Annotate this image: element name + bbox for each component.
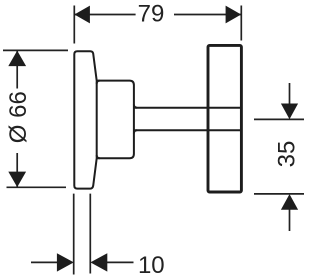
extension line d66 top — [3, 49, 68, 51]
stem top line — [134, 107, 242, 109]
svg-text:Ø 66: Ø 66 — [5, 91, 32, 143]
fillet neck-stem bottom — [134, 130, 137, 133]
extension line 10 left — [73, 194, 75, 275]
extension line 79 right — [240, 6, 242, 41]
dimension line 10 left part — [31, 261, 60, 263]
svg-text:79: 79 — [138, 0, 165, 27]
fillet neck-stem top — [134, 105, 137, 108]
svg-text:35: 35 — [274, 141, 301, 168]
svg-text:10: 10 — [138, 252, 165, 279]
arrow 79 right — [226, 6, 242, 24]
extension line 10 right — [89, 194, 91, 274]
fillet cone-neck top — [97, 81, 100, 84]
arrow d66 up — [8, 51, 26, 67]
reference line 35 top — [254, 118, 304, 120]
extension line 79 left — [73, 6, 75, 44]
dimension line 79 right part — [174, 14, 241, 16]
dimension line d66 upper part — [16, 51, 18, 89]
dimension line 10 right part — [106, 261, 133, 263]
arrow 35 up — [281, 194, 298, 210]
reference line 35 bottom — [254, 193, 304, 195]
dimension line 35 upper part — [289, 83, 291, 110]
fillet cone-neck bottom — [97, 155, 100, 158]
dimension line 35 lower part — [289, 203, 291, 231]
arrow d66 down — [8, 172, 26, 188]
escutcheon plate with cone outline — [74, 51, 96, 188]
extension line d66 bottom — [7, 186, 67, 188]
stem bottom line — [134, 129, 242, 131]
neck cylinder — [97, 81, 134, 159]
dimension line d66 lower part — [16, 153, 18, 187]
arrow 10 pointing left — [90, 253, 107, 271]
dimension line 79 left part — [74, 14, 135, 16]
arrow 79 left — [74, 6, 90, 24]
arrow 10 pointing right — [57, 253, 74, 271]
handle bar — [208, 45, 241, 192]
arrow 35 down — [281, 104, 298, 120]
